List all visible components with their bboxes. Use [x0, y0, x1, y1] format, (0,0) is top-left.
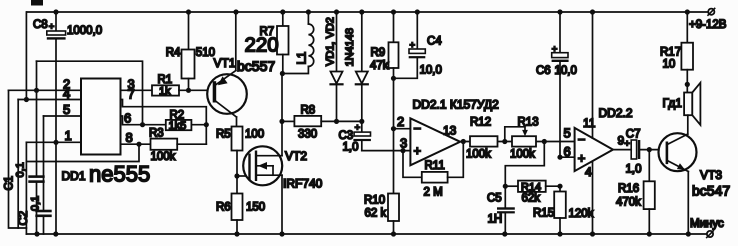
svg-text:2 М: 2 М	[424, 187, 443, 199]
svg-text:+: +	[578, 150, 586, 165]
node R8 left	[279, 119, 284, 124]
diode VD2	[344, 12, 368, 121]
node R9/C4	[391, 76, 396, 81]
svg-text:C3: C3	[339, 130, 354, 142]
wire pin2 left drop	[9, 90, 27, 228]
wire R13 right to C5	[505, 142, 544, 208]
svg-text:2: 2	[397, 114, 404, 129]
resistor R15	[533, 186, 594, 234]
wire opamp1 output row	[460, 141, 574, 143]
wire gate	[237, 175, 250, 177]
svg-text:100k: 100k	[151, 151, 176, 163]
resistor R4	[166, 12, 215, 90]
node R14 left	[503, 184, 508, 189]
svg-text:5: 5	[564, 126, 571, 141]
svg-text:R17: R17	[660, 47, 681, 59]
svg-text:R5: R5	[216, 129, 231, 141]
node R12/R13	[502, 139, 507, 144]
op-amp DD2.2	[564, 106, 633, 179]
wire speaker to VT3 collector	[687, 115, 689, 134]
IC DD1 ne555	[62, 77, 151, 187]
node pin2	[391, 126, 396, 131]
wire R1 to base node	[179, 89, 215, 91]
resistor R3	[149, 128, 177, 164]
svg-text:DD1: DD1	[62, 169, 86, 183]
capacitor C1	[4, 61, 45, 234]
wire +V left drop to pin4	[25, 12, 27, 100]
svg-text:+9-12В: +9-12В	[689, 19, 727, 31]
svg-text:1,0: 1,0	[626, 164, 642, 176]
diode VD1	[325, 12, 343, 121]
wire pin5 row	[44, 115, 82, 117]
svg-text:11: 11	[583, 116, 596, 130]
svg-text:10: 10	[663, 59, 676, 71]
svg-text:4: 4	[63, 86, 70, 101]
svg-text:8: 8	[126, 130, 133, 145]
wire pin1 row	[26, 141, 81, 143]
svg-text:R11: R11	[425, 160, 445, 172]
svg-text:100k: 100k	[510, 149, 535, 161]
node gate junction	[234, 173, 239, 178]
svg-text:4: 4	[585, 165, 592, 179]
op-amp DD2.1	[397, 98, 499, 166]
svg-text:R14: R14	[521, 181, 541, 193]
transistor VT2 IRF740	[243, 146, 322, 190]
resistor R6	[216, 176, 265, 234]
resistor R8	[282, 105, 362, 141]
wire pin4 left drop	[17, 100, 19, 229]
node R13 right	[542, 139, 547, 144]
svg-text:+: +	[410, 40, 416, 51]
wire VT2 drain up	[281, 74, 283, 156]
wire bias to pin2 and R10	[393, 78, 395, 193]
svg-text:R12: R12	[470, 117, 491, 129]
wire pin2	[394, 128, 411, 130]
node C7/R16/base	[647, 147, 652, 152]
capacitor C8	[33, 12, 102, 234]
wire R2 right	[191, 124, 206, 126]
svg-text:VD1, VD2: VD1, VD2	[325, 17, 337, 66]
svg-text:7: 7	[128, 86, 135, 101]
svg-text:1Н: 1Н	[488, 214, 503, 226]
speaker Gd1	[663, 83, 701, 125]
svg-text:R9: R9	[371, 47, 386, 59]
resistor R9	[370, 12, 399, 78]
svg-text:R6: R6	[216, 202, 231, 214]
wire pin1 drop to rail	[25, 142, 27, 234]
capacitor C6	[536, 12, 577, 157]
resistor R1	[152, 74, 179, 97]
svg-text:R8: R8	[301, 105, 316, 117]
inductor L1	[282, 12, 313, 74]
svg-text:+: +	[552, 44, 558, 55]
svg-text:6: 6	[564, 144, 571, 159]
svg-text:13: 13	[443, 124, 457, 138]
capacitor C5	[487, 193, 515, 235]
svg-text:−: −	[578, 132, 586, 147]
resistor R12	[466, 117, 498, 161]
svg-text:47k: 47k	[370, 60, 389, 72]
node pin2 junction	[34, 88, 39, 93]
node output/R11	[461, 139, 466, 144]
svg-text:10,0: 10,0	[420, 65, 442, 77]
transistor VT3 bc547	[659, 133, 731, 234]
svg-text:1: 1	[65, 128, 72, 143]
svg-text:R3: R3	[149, 128, 164, 140]
wire C3 to pin3	[362, 150, 411, 152]
node R14 right	[557, 184, 562, 189]
wire pin6	[560, 156, 575, 158]
svg-text:R16: R16	[618, 183, 639, 195]
svg-text:bc547: bc547	[692, 183, 730, 199]
svg-text:62 k: 62 k	[365, 208, 387, 220]
svg-text:VT2: VT2	[285, 149, 307, 163]
node VD2/C3	[359, 119, 364, 124]
svg-text:C2: C2	[18, 211, 30, 226]
node pin6/link	[140, 122, 145, 127]
node dots top rail	[53, 9, 690, 14]
svg-text:C4: C4	[427, 36, 442, 48]
wire pin11 to +V	[592, 12, 594, 138]
node above speaker	[685, 82, 690, 87]
capacitor C4	[394, 12, 443, 78]
resistor R11 feedback	[403, 142, 463, 199]
svg-text:1,0: 1,0	[343, 142, 359, 154]
svg-text:330: 330	[298, 129, 317, 141]
svg-text:VT1: VT1	[214, 56, 236, 70]
wire pins 2-6 link	[37, 61, 143, 124]
resistor R16	[616, 150, 655, 234]
svg-text:150: 150	[246, 202, 265, 214]
wire pin8 row	[121, 143, 151, 145]
node VD1 bottom	[334, 119, 339, 124]
wire VT2 source down	[281, 175, 283, 234]
svg-text:1000,0: 1000,0	[67, 25, 102, 37]
svg-text:R4: R4	[166, 47, 181, 59]
wire bottom minus rail	[26, 233, 707, 235]
svg-text:DD2.2: DD2.2	[599, 106, 633, 120]
node dots bottom rail	[34, 231, 691, 236]
resistor R7	[245, 12, 289, 74]
svg-text:C8: C8	[33, 19, 48, 31]
svg-text:100k: 100k	[466, 149, 491, 161]
svg-text:Минус: Минус	[690, 218, 724, 230]
capacitor C3	[339, 121, 371, 153]
svg-text:−: −	[414, 121, 422, 136]
top-left page mark	[31, 0, 43, 6]
svg-text:0,1: 0,1	[15, 162, 27, 177]
wire pin4 to minus	[592, 161, 594, 234]
terminal +9-12V	[689, 8, 727, 31]
resistor R14	[505, 181, 560, 205]
resistor R2	[166, 110, 192, 132]
wire top +V rail	[27, 11, 708, 13]
wire pin3 row	[121, 89, 153, 91]
wire pin4 row	[18, 99, 81, 101]
node pin4 junction	[24, 97, 29, 102]
resistor R5	[216, 127, 264, 177]
node pin8/R3	[136, 142, 141, 147]
svg-text:C6: C6	[536, 65, 551, 77]
resistor R10	[364, 194, 399, 235]
node R7/L1/drain	[280, 71, 285, 76]
svg-text:+: +	[414, 143, 422, 158]
svg-text:62k: 62k	[522, 193, 541, 205]
svg-text:ne555: ne555	[89, 162, 150, 187]
svg-text:10,0: 10,0	[555, 65, 577, 77]
svg-text:R15: R15	[533, 208, 554, 220]
svg-text:100: 100	[245, 129, 264, 141]
svg-text:120k: 120k	[569, 208, 594, 220]
svg-text:C5: C5	[487, 193, 502, 205]
capacitor C7	[613, 129, 666, 176]
node R2/pin7	[204, 122, 209, 127]
wire pin2 row	[9, 89, 82, 91]
svg-text:bc557: bc557	[237, 58, 275, 74]
terminal Minus	[690, 218, 724, 238]
node pin6 DD2.2	[557, 155, 562, 160]
capacitor C2	[18, 116, 52, 234]
svg-text:C7: C7	[626, 129, 641, 141]
wire pin7 row	[121, 100, 207, 145]
svg-text:DD2.1 К157УД2: DD2.1 К157УД2	[413, 98, 500, 112]
svg-text:IRF740: IRF740	[283, 177, 323, 191]
svg-text:220: 220	[245, 34, 279, 57]
wire R3 right	[177, 143, 206, 145]
svg-text:5: 5	[63, 102, 70, 117]
svg-text:470k: 470k	[616, 197, 641, 209]
resistor R17	[660, 12, 693, 93]
svg-text:L1: L1	[297, 52, 309, 65]
transistor VT1 bc557	[207, 12, 275, 127]
svg-text:VT3: VT3	[700, 168, 722, 182]
wire pin8 wrap link	[26, 144, 139, 161]
svg-text:1N4148: 1N4148	[344, 28, 356, 67]
node pin1/C8 junction	[53, 140, 58, 145]
node pin3	[400, 148, 405, 153]
svg-text:R13: R13	[518, 117, 539, 129]
svg-text:510: 510	[196, 47, 215, 59]
svg-text:R10: R10	[364, 195, 385, 207]
potentiometer R13	[505, 117, 539, 161]
svg-text:+: +	[49, 21, 55, 32]
svg-text:1k5: 1k5	[169, 120, 187, 132]
wire pin6 row	[121, 116, 166, 125]
svg-text:1k: 1k	[159, 85, 171, 97]
svg-text:Гд1: Гд1	[663, 96, 683, 110]
node R1/R4/base	[186, 88, 191, 93]
svg-text:R1: R1	[158, 74, 173, 86]
svg-text:0,1: 0,1	[30, 196, 42, 211]
svg-text:+: +	[355, 123, 361, 134]
svg-text:6: 6	[124, 111, 131, 126]
